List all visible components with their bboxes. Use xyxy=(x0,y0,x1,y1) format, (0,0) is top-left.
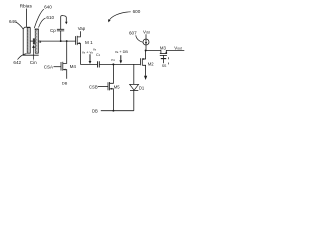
svg-text:SS: SS xyxy=(162,64,167,68)
svg-text:vs + va: vs + va xyxy=(82,50,93,54)
svg-text:Vap: Vap xyxy=(78,26,86,31)
svg-text:M4: M4 xyxy=(70,64,77,69)
svg-text:646: 646 xyxy=(9,19,17,24)
svg-text:DB: DB xyxy=(62,81,68,86)
svg-text:Cin: Cin xyxy=(30,60,37,65)
svg-text:vs: vs xyxy=(93,47,97,51)
svg-text:va + DB: va + DB xyxy=(115,50,128,54)
svg-text:DB: DB xyxy=(92,109,98,114)
svg-text:M 1: M 1 xyxy=(85,40,93,45)
svg-text:610: 610 xyxy=(46,15,54,20)
svg-text:600: 600 xyxy=(133,9,141,14)
svg-text:642: 642 xyxy=(13,60,21,65)
svg-text:607: 607 xyxy=(129,31,137,36)
svg-text:D1: D1 xyxy=(139,86,145,91)
svg-text:n1: n1 xyxy=(111,58,115,62)
svg-text:Vout: Vout xyxy=(174,45,182,50)
svg-text:C1: C1 xyxy=(96,53,101,57)
svg-text:Cp: Cp xyxy=(50,28,56,33)
svg-text:CSB: CSB xyxy=(89,84,98,89)
svg-text:640: 640 xyxy=(44,5,52,10)
svg-text:Vdd: Vdd xyxy=(143,29,150,34)
svg-text:CSA: CSA xyxy=(44,65,53,70)
svg-text:Rbias: Rbias xyxy=(20,3,33,9)
svg-text:M2: M2 xyxy=(148,62,154,67)
svg-text:M5: M5 xyxy=(114,84,120,89)
svg-text:M3: M3 xyxy=(160,45,167,50)
